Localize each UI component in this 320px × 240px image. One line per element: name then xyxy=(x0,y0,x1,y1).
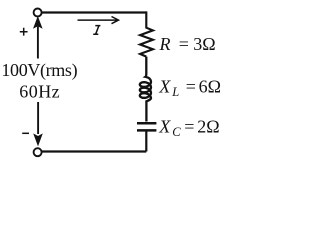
wire bottom horizontal xyxy=(42,150,147,152)
current arrow I xyxy=(78,17,119,24)
svg-text:60Hz: 60Hz xyxy=(19,81,60,101)
wire top horizontal xyxy=(42,11,147,13)
source down arrowhead xyxy=(33,133,43,146)
capacitor XC bottom plate xyxy=(137,129,156,132)
source up arrowhead xyxy=(33,16,43,29)
label I (italic) xyxy=(93,26,100,35)
label minus sign xyxy=(22,132,29,134)
top terminal (open circle) xyxy=(34,9,42,17)
wire capacitor to bottom xyxy=(145,132,147,152)
svg-text:R=3Ω: R=3Ω xyxy=(159,34,216,54)
svg-text:XC=2Ω: XC=2Ω xyxy=(158,116,219,139)
resistor R leads and zigzag xyxy=(140,11,153,56)
inductor XL coil xyxy=(140,57,151,122)
capacitor XC top plate xyxy=(137,122,156,125)
svg-text:XL=6Ω: XL=6Ω xyxy=(158,77,221,100)
source upper shaft xyxy=(37,27,39,59)
label plus sign xyxy=(20,28,28,36)
svg-text:100V(rms): 100V(rms) xyxy=(1,60,77,81)
source lower shaft xyxy=(37,102,39,134)
bottom terminal (open circle) xyxy=(34,148,42,156)
